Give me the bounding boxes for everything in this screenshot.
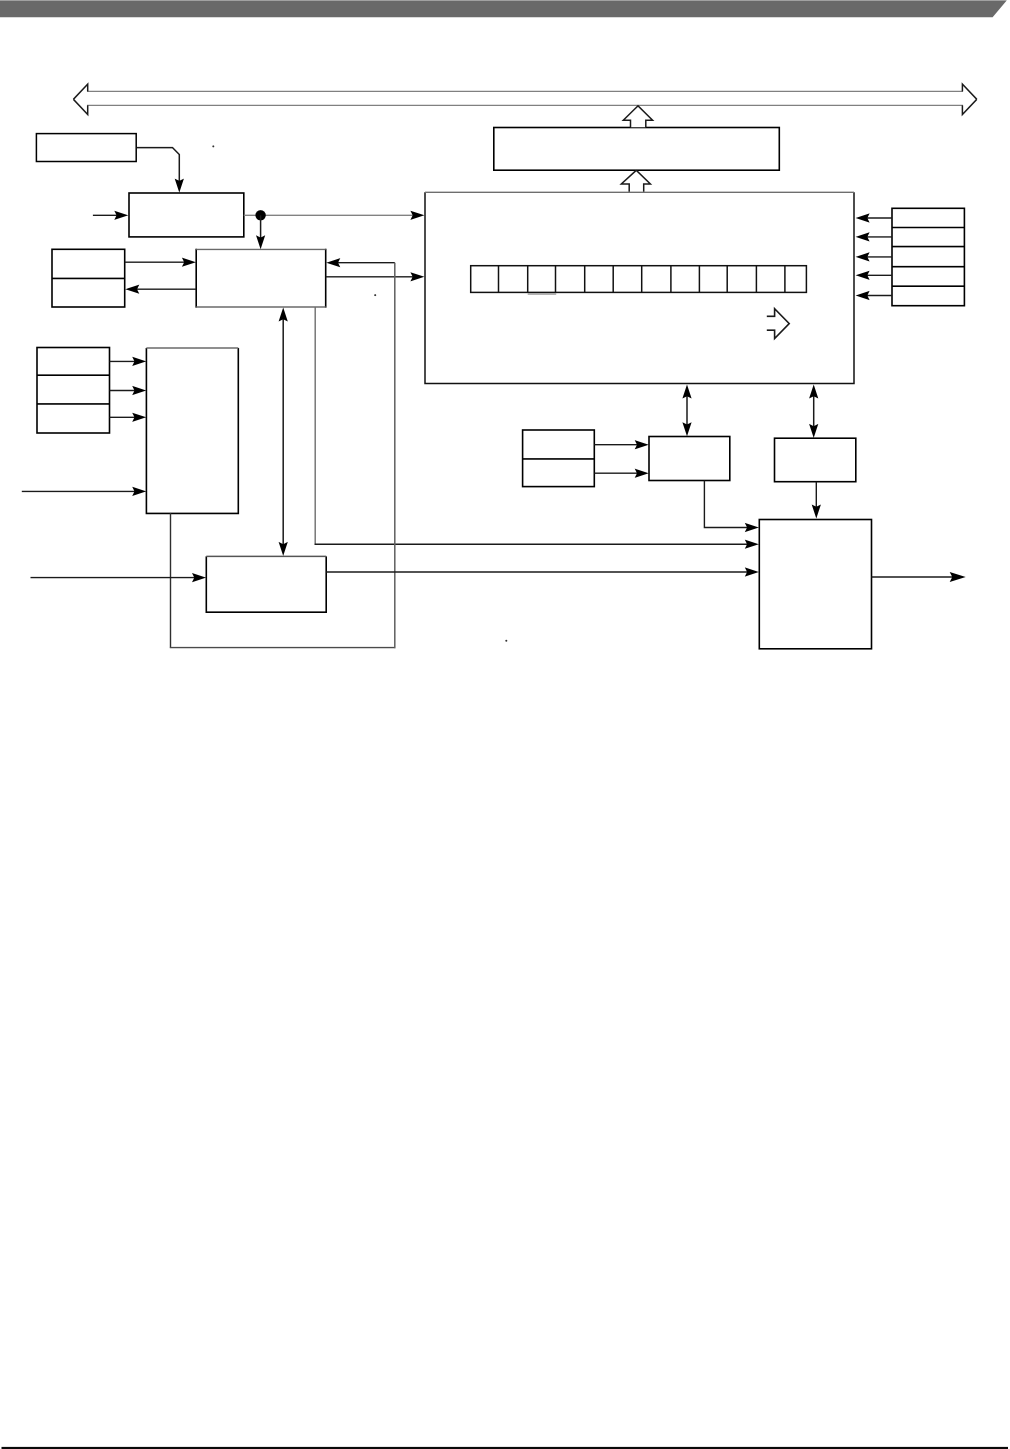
block H two rows [523,430,595,487]
block J [775,438,856,482]
peripheral stack five rows [892,208,964,305]
block G [206,556,326,612]
bus shaft lines [87,91,963,105]
wire C to big box [326,272,425,281]
vertical double arrow big box - J [809,385,818,438]
hollow up arrow to bus [623,106,652,127]
wire B to big box [244,211,425,220]
hollow right arrow inside big box [767,309,789,339]
feedback loop F bottom to C right [170,513,172,648]
junction dot [255,210,265,220]
bus right arrowhead [962,84,976,114]
wire I to K [704,481,758,533]
footer rule [2,1447,1009,1449]
feedback arrow into C right edge [326,258,395,267]
speck 2 [374,294,376,296]
vertical double arrow big box - I [682,385,691,437]
big central box [425,192,854,383]
top box [494,128,780,171]
wire dot to C [256,215,265,249]
block B [129,193,244,237]
arrows E to F [110,357,147,422]
block A top-left [36,134,136,162]
block I [649,437,730,481]
register cell row [471,266,807,293]
speck 1 [212,145,214,147]
wire J to K [812,482,821,519]
wire A to B [137,148,184,193]
hollow up arrow to top box [621,170,650,192]
block E three rows [37,348,110,434]
block D two rows [52,249,125,307]
input arrow into F [22,487,146,496]
input arrow into G [31,573,207,582]
bus left arrowhead [73,84,87,114]
artifact gray segment under cell 3 [528,293,557,295]
arrow C to D [125,285,196,294]
arrows H to I [594,440,648,478]
output arrow from K [872,572,966,582]
five arrows stack to big box [856,213,892,300]
vertical double arrow C-G [279,308,288,556]
block C [196,249,326,308]
header gray banner [0,0,1007,17]
block F tall [146,348,238,513]
input arrow into B [93,211,128,220]
wire C bottom to K [315,308,759,549]
block K [759,520,871,649]
wire G to K [326,567,759,576]
arrow D to C [125,258,196,267]
speck 3 [505,640,507,642]
